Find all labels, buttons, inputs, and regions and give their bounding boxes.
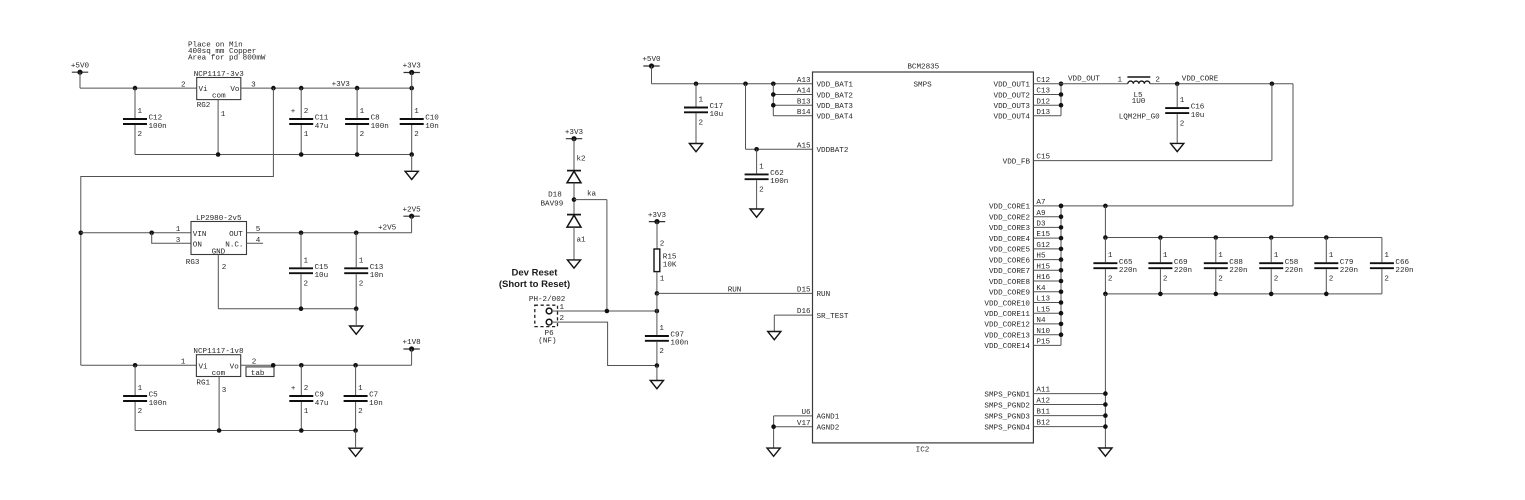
svg-text:1: 1 (1384, 252, 1389, 260)
junction C8 tap (355, 86, 360, 91)
svg-text:VDDBAT2: VDDBAT2 (817, 147, 849, 155)
svg-text:V17: V17 (797, 420, 811, 428)
svg-text:SMPS_PGND2: SMPS_PGND2 (984, 402, 1030, 410)
svg-text:1U0: 1U0 (1132, 98, 1146, 106)
svg-text:1: 1 (138, 385, 143, 393)
svg-text:2: 2 (1218, 275, 1223, 283)
svg-text:VIN: VIN (193, 231, 207, 239)
junction A14 row (771, 92, 776, 97)
wire RUN column to C97 (656, 293, 658, 335)
svg-text:2: 2 (360, 131, 365, 139)
connector P6 PH-2/002 (529, 296, 566, 345)
wire RG3 NC stub (247, 242, 264, 244)
svg-text:100n: 100n (670, 340, 688, 348)
junction RG3 feed tap (79, 231, 84, 236)
wire to RG1 Vi (81, 364, 197, 366)
svg-text:1: 1 (414, 108, 419, 116)
svg-text:C7: C7 (369, 392, 378, 400)
svg-text:2: 2 (304, 385, 309, 393)
svg-text:2: 2 (358, 408, 363, 416)
svg-text:Vo: Vo (230, 86, 240, 94)
wire +1V8 flag drop (411, 349, 413, 365)
junction VDD_CORE pin dots (1059, 204, 1064, 337)
svg-text:SMPS_PGND3: SMPS_PGND3 (984, 413, 1030, 421)
svg-text:2: 2 (304, 280, 309, 288)
svg-text:1: 1 (181, 358, 186, 366)
svg-text:1: 1 (304, 257, 309, 265)
svg-text:1: 1 (1108, 252, 1113, 260)
svg-text:VDD_OUT4: VDD_OUT4 (994, 114, 1031, 122)
svg-text:1: 1 (304, 131, 309, 139)
junction gnd bus RG1 com (217, 428, 222, 433)
svg-text:D15: D15 (797, 287, 811, 295)
svg-text:AGND2: AGND2 (817, 425, 840, 433)
svg-text:A13: A13 (797, 77, 811, 85)
svg-text:10n: 10n (370, 272, 384, 280)
junction VDD_OUT D12 (1059, 103, 1064, 108)
svg-text:RG3: RG3 (186, 259, 200, 267)
svg-text:1: 1 (699, 97, 704, 105)
svg-text:C17: C17 (710, 103, 724, 111)
wire +3V3 flag drop (411, 73, 413, 89)
junction PGND dots (1103, 391, 1108, 429)
junction RUN node (655, 291, 660, 296)
wire gnd stem (2v5 row) (355, 309, 357, 326)
svg-text:100n: 100n (371, 123, 389, 131)
svg-text:VDD_CORE6: VDD_CORE6 (989, 257, 1030, 265)
junction C16 tap (1175, 82, 1180, 87)
junction gnd bus C8 (355, 152, 360, 157)
wire gnd bus (1v8 row) (135, 430, 356, 432)
svg-text:1: 1 (1163, 252, 1168, 260)
svg-text:C69: C69 (1174, 259, 1188, 267)
svg-text:VDD_FB: VDD_FB (1003, 158, 1031, 166)
svg-text:2: 2 (1180, 120, 1185, 128)
junction C15 tap (299, 231, 304, 236)
svg-text:U6: U6 (801, 409, 811, 417)
svg-text:tab: tab (251, 370, 265, 378)
svg-text:2: 2 (1163, 275, 1168, 283)
svg-text:com: com (212, 93, 226, 101)
ground (C62) (750, 209, 763, 217)
junction gnd bus C7 (353, 428, 358, 433)
svg-text:D18: D18 (548, 191, 562, 199)
capacitor C9 (289, 365, 328, 430)
power flag +5V0 (71, 62, 90, 74)
svg-text:+2V5: +2V5 (402, 206, 421, 214)
svg-text:2: 2 (222, 264, 227, 272)
ground (3v3 row) (405, 171, 418, 179)
svg-text:+3V3: +3V3 (648, 212, 667, 220)
note copper-area text (188, 42, 266, 63)
svg-text:LQM2HP_G0: LQM2HP_G0 (1119, 114, 1160, 122)
svg-text:2: 2 (660, 240, 665, 248)
wire RUN to IC pin D15 (657, 292, 813, 294)
inductor L5 1U0 (1118, 76, 1161, 121)
junction C12 tap (133, 86, 138, 91)
power flag +3V3 (565, 129, 584, 141)
junction gnd bus C11 (299, 152, 304, 157)
svg-text:VDD_CORE7: VDD_CORE7 (989, 268, 1030, 276)
svg-text:C58: C58 (1285, 259, 1299, 267)
capacitor C17 (684, 84, 723, 144)
wire +3V3 rail (RG2 out) (241, 87, 412, 89)
svg-text:AGND1: AGND1 (817, 414, 840, 422)
wire PGND column (1033, 294, 1105, 448)
junction C97 gnd node (655, 363, 660, 368)
svg-text:Area for pd 800mW: Area for pd 800mW (188, 55, 266, 63)
IC IC2 BCM2835 SMPS (813, 64, 1034, 455)
svg-text:OUT: OUT (229, 231, 243, 239)
svg-text:100n: 100n (149, 123, 167, 131)
svg-text:1: 1 (304, 408, 309, 416)
svg-text:1: 1 (138, 108, 143, 116)
svg-text:2: 2 (659, 348, 664, 356)
regulator RG2 NCP1117-3v3 (181, 71, 256, 119)
power flag +3V3 (403, 63, 422, 75)
ground (C97) (650, 381, 663, 389)
svg-text:VDD_CORE3: VDD_CORE3 (989, 225, 1030, 233)
svg-text:47u: 47u (315, 123, 329, 131)
wire cap-bank top bus (1105, 206, 1382, 238)
capacitor C13 (344, 233, 384, 309)
wire VDD_BAT2-4 branch (773, 84, 812, 116)
svg-text:100n: 100n (770, 178, 788, 186)
capacitor C10 (400, 88, 440, 154)
wire RG1 com to bus (218, 377, 220, 431)
svg-text:D16: D16 (797, 308, 811, 316)
svg-text:10K: 10K (663, 261, 677, 269)
junction C7 tap (353, 363, 358, 368)
svg-text:(NF): (NF) (538, 337, 556, 345)
svg-text:A15: A15 (797, 142, 811, 150)
svg-text:+5V0: +5V0 (71, 62, 90, 70)
wire RG3 ON branch (152, 233, 191, 244)
junction gnd bus C9 (299, 428, 304, 433)
svg-text:C12: C12 (149, 115, 163, 123)
wire AGND1/AGND2 to gnd (774, 416, 813, 448)
svg-text:1: 1 (1180, 97, 1185, 105)
svg-text:2: 2 (359, 280, 364, 288)
svg-text:+2V5: +2V5 (378, 224, 397, 232)
svg-text:B13: B13 (797, 98, 811, 106)
svg-text:Vi: Vi (199, 364, 209, 372)
svg-text:1: 1 (660, 275, 665, 283)
junction C10 / flag tap (409, 86, 414, 91)
junction C62 tap (754, 147, 759, 152)
svg-text:VDD_BAT4: VDD_BAT4 (817, 114, 854, 122)
wire +2V5 rail (247, 232, 412, 234)
regulator RG3 LP2980-2v5 (176, 215, 261, 272)
IC2 right pin labels (984, 77, 1050, 433)
junction +3V3 branch down (271, 86, 276, 91)
svg-text:B14: B14 (797, 109, 811, 117)
svg-text:2: 2 (414, 131, 419, 139)
capacitor C15 (289, 233, 329, 309)
svg-text:VDD_CORE11: VDD_CORE11 (984, 311, 1030, 319)
wire R15 to RUN node (656, 272, 658, 294)
ground (PGND) (1099, 448, 1112, 456)
junction C5 tap (133, 363, 138, 368)
svg-text:IC2: IC2 (916, 446, 930, 454)
capacitor C58 (1259, 238, 1303, 294)
svg-text:3: 3 (222, 387, 227, 395)
svg-text:R15: R15 (663, 254, 677, 262)
junction C13 tap (354, 231, 359, 236)
IC2 left pin labels (797, 77, 853, 433)
junction RG3 ON branch (149, 231, 154, 236)
resistor R15 10K (654, 240, 677, 283)
ground (1v8 row) (349, 448, 362, 456)
junction C9 tap (299, 363, 304, 368)
svg-text:10u: 10u (1191, 112, 1205, 120)
capacitor C65 (1093, 238, 1137, 294)
svg-text:1: 1 (359, 257, 364, 265)
svg-text:BCM2835: BCM2835 (907, 64, 939, 72)
svg-text:C16: C16 (1191, 104, 1205, 112)
svg-text:SMPS_PGND1: SMPS_PGND1 (984, 391, 1030, 399)
svg-text:VDD_CORE: VDD_CORE (1182, 76, 1219, 84)
junction top bus dots (1103, 235, 1329, 240)
junction gnd bus C10 (409, 152, 414, 157)
wire VDD_CORE pin bus (1033, 206, 1061, 346)
svg-text:1: 1 (659, 325, 664, 333)
wire +3V3 feed to lower regulators (81, 88, 274, 365)
wire C97 gnd stem (656, 366, 658, 381)
ground (D18) (567, 260, 580, 268)
svg-text:VDD_OUT2: VDD_OUT2 (994, 92, 1031, 100)
svg-text:VDD_CORE2: VDD_CORE2 (989, 215, 1030, 223)
junction BAT branch (771, 82, 776, 87)
svg-text:VDD_OUT: VDD_OUT (1068, 76, 1100, 84)
svg-text:2: 2 (1329, 275, 1334, 283)
wire gnd bus (2v5 row) (218, 308, 356, 310)
wire VDD_CORE down to A7 row (1061, 84, 1293, 206)
svg-text:VDD_CORE12: VDD_CORE12 (984, 322, 1030, 330)
ground (2v5 row) (350, 326, 363, 334)
svg-text:2: 2 (1155, 76, 1160, 84)
svg-text:2: 2 (759, 186, 764, 194)
svg-text:VDD_CORE9: VDD_CORE9 (989, 290, 1030, 298)
junction tab / rail (271, 363, 276, 368)
svg-text:+3V3: +3V3 (403, 63, 422, 71)
svg-text:C11: C11 (315, 115, 329, 123)
wire P6 pin1 to RUN (552, 310, 657, 312)
svg-text:C88: C88 (1229, 259, 1243, 267)
svg-text:VDD_BAT1: VDD_BAT1 (817, 82, 854, 90)
junction B13 row (771, 103, 776, 108)
svg-text:3: 3 (176, 237, 181, 245)
svg-text:VDD_CORE8: VDD_CORE8 (989, 279, 1030, 287)
capacitor C62 (745, 149, 789, 209)
svg-text:2: 2 (1108, 275, 1113, 283)
svg-text:Vo: Vo (230, 364, 240, 372)
svg-text:C5: C5 (149, 392, 159, 400)
wire to RG3 VIN (81, 232, 191, 234)
svg-text:C79: C79 (1340, 259, 1354, 267)
wire VDDBAT2 (A15) (746, 84, 813, 150)
junction gnd bus C13 (354, 306, 359, 311)
capacitor C11 (289, 88, 329, 154)
svg-text:2: 2 (181, 81, 186, 89)
capacitor C16 (1165, 84, 1205, 144)
svg-text:VDD_CORE1: VDD_CORE1 (989, 204, 1030, 212)
ground (SR_TEST) (768, 332, 781, 340)
svg-text:ka: ka (587, 191, 597, 199)
wire ka to P6 pin1 (574, 200, 607, 311)
svg-text:220n: 220n (1340, 267, 1358, 275)
power flag +1V8 (402, 339, 421, 351)
capacitor C5 (123, 365, 167, 430)
svg-text:VDD_CORE14: VDD_CORE14 (984, 343, 1030, 351)
svg-text:a1: a1 (577, 237, 587, 245)
svg-text:SR_TEST: SR_TEST (817, 313, 849, 321)
power flag +5V0 (642, 56, 661, 68)
svg-text:+1V8: +1V8 (402, 339, 421, 347)
capacitor C97 (645, 325, 689, 366)
svg-text:C65: C65 (1119, 259, 1133, 267)
svg-text:1: 1 (176, 226, 181, 234)
svg-text:C13: C13 (370, 264, 384, 272)
svg-text:2: 2 (138, 131, 143, 139)
svg-text:2: 2 (1274, 275, 1279, 283)
wire +5V0 to VDD_BAT pins (652, 66, 813, 84)
svg-text:2: 2 (1384, 275, 1389, 283)
wire VDD_OUT to L5 (1033, 83, 1127, 85)
wire RG2 com to gnd bus (217, 100, 219, 155)
junction C11 tap (299, 86, 304, 91)
svg-text:1: 1 (1218, 252, 1223, 260)
svg-text:220n: 220n (1395, 267, 1413, 275)
svg-text:C62: C62 (770, 170, 784, 178)
wire VDD_CORE rail (1150, 83, 1293, 85)
svg-text:BAV99: BAV99 (541, 200, 564, 208)
svg-text:RUN: RUN (728, 286, 742, 294)
junction bottom bus dots (1103, 292, 1329, 297)
wire +5V0 to RG2 Vi (80, 72, 197, 88)
wire gnd stem (1v8 row) (355, 431, 357, 449)
wire VDD_FB feedback (1033, 84, 1272, 161)
svg-text:RG1: RG1 (196, 380, 210, 388)
svg-text:C66: C66 (1395, 259, 1409, 267)
svg-text:1: 1 (360, 108, 365, 116)
svg-text:VDD_CORE13: VDD_CORE13 (984, 333, 1030, 341)
junction VDD_OUT C12 (1059, 82, 1064, 87)
ground (C17) (689, 144, 702, 152)
svg-text:(Short to Reset): (Short to Reset) (499, 279, 570, 290)
capacitor C69 (1148, 238, 1192, 294)
junction C17 tap (694, 82, 699, 87)
svg-text:1: 1 (221, 111, 226, 119)
junction A7 bus top (1059, 204, 1064, 209)
svg-text:A14: A14 (797, 88, 811, 96)
svg-text:1: 1 (1274, 252, 1279, 260)
svg-text:220n: 220n (1174, 267, 1192, 275)
svg-text:10u: 10u (710, 111, 724, 119)
svg-text:VDD_BAT2: VDD_BAT2 (817, 92, 854, 100)
svg-text:SMPS: SMPS (913, 81, 932, 89)
svg-text:1: 1 (759, 163, 764, 171)
svg-text:VDD_CORE4: VDD_CORE4 (989, 236, 1030, 244)
svg-text:C10: C10 (425, 115, 439, 123)
junction gnd bus C15 (299, 306, 304, 311)
wire P6 pin2 to gnd node (552, 322, 657, 365)
svg-text:SMPS_PGND4: SMPS_PGND4 (984, 424, 1030, 432)
svg-text:10n: 10n (425, 123, 439, 131)
svg-text:10u: 10u (315, 272, 329, 280)
junction gnd bus RG2 com (216, 152, 221, 157)
junction AGND (771, 424, 776, 429)
capacitor C88 (1204, 238, 1248, 294)
wire RG3 GND to bus (217, 255, 219, 309)
wire cap-bank bottom bus (1105, 293, 1382, 295)
svg-text:+3V3: +3V3 (332, 81, 351, 89)
label Dev Reset (499, 267, 570, 290)
svg-text:+5V0: +5V0 (642, 56, 661, 64)
svg-text:2: 2 (138, 408, 143, 416)
wire +2V5 flag drop (411, 216, 413, 233)
svg-text:C97: C97 (670, 332, 684, 340)
svg-text:k2: k2 (577, 156, 587, 164)
svg-text:+: + (291, 108, 296, 116)
power flag +3V3 (648, 212, 667, 224)
junction A7 cap-bank drop (1103, 204, 1108, 209)
wire gnd stem (3v3 row) (411, 155, 413, 172)
svg-text:2: 2 (304, 108, 309, 116)
svg-text:47u: 47u (315, 400, 329, 408)
junction ka node (572, 197, 577, 202)
capacitor C66 (1370, 238, 1414, 294)
svg-text:N.C.: N.C. (225, 241, 243, 249)
svg-text:100n: 100n (149, 400, 167, 408)
junction VDD_FB tap (1270, 82, 1275, 87)
svg-text:VDD_BAT3: VDD_BAT3 (817, 103, 854, 111)
wire gnd bus (3v3 row) (135, 154, 412, 156)
svg-text:1: 1 (358, 385, 363, 393)
power flag +2V5 (402, 206, 421, 218)
svg-text:VDD_CORE5: VDD_CORE5 (989, 247, 1030, 255)
wire VDD_OUT bus verticals (1033, 84, 1061, 116)
capacitor C8 (345, 88, 389, 154)
svg-text:1: 1 (1118, 76, 1123, 84)
svg-text:RG2: RG2 (197, 102, 211, 110)
svg-text:220n: 220n (1285, 267, 1303, 275)
svg-text:C15: C15 (315, 264, 329, 272)
svg-text:Vi: Vi (199, 86, 209, 94)
svg-text:220n: 220n (1119, 267, 1137, 275)
svg-text:1: 1 (1329, 252, 1334, 260)
svg-text:ON: ON (193, 241, 202, 249)
wire SR_TEST to gnd (774, 315, 812, 331)
tab pin box of RG1 (246, 367, 274, 378)
svg-text:RUN: RUN (817, 291, 831, 299)
svg-text:+: + (291, 385, 296, 393)
svg-text:VDD_OUT3: VDD_OUT3 (994, 103, 1031, 111)
regulator RG1 NCP1117-1v8 (181, 348, 257, 395)
svg-text:VDD_CORE10: VDD_CORE10 (984, 300, 1030, 308)
svg-text:VDD_OUT1: VDD_OUT1 (994, 82, 1031, 90)
ground (C16) (1171, 143, 1184, 151)
svg-text:C9: C9 (315, 392, 325, 400)
capacitor C12 (123, 88, 167, 154)
diode D18 (dual BAV99) (541, 156, 597, 260)
wire +1V8 rail (241, 364, 412, 366)
ground (AGND) (767, 448, 780, 456)
svg-text:C8: C8 (371, 115, 381, 123)
junction pin1/RUN column (655, 309, 660, 314)
capacitor C7 (344, 365, 383, 430)
junction ka/pin1 (605, 309, 610, 314)
